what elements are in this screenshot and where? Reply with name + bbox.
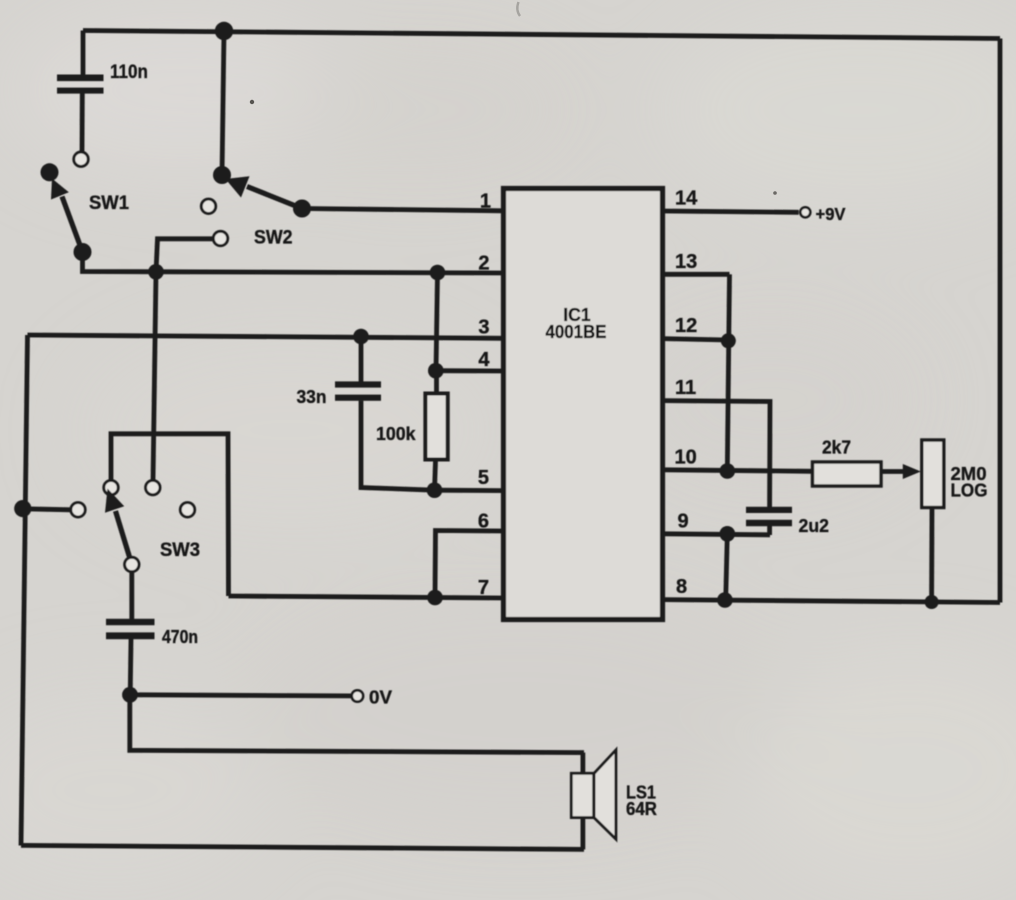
IC U1 4001BE body	[504, 189, 663, 620]
wire: 0V rail	[130, 695, 351, 696]
capacitor 2u2	[746, 507, 792, 526]
switch SW3	[71, 480, 195, 571]
svg-text:4: 4	[478, 349, 490, 371]
svg-text:3: 3	[478, 317, 489, 339]
junction: pin 9	[720, 526, 736, 542]
wire: IC pin 12 stub	[663, 339, 729, 340]
wire: IC pin 5 stub	[435, 488, 505, 493]
wire: top rail down to SW2 pole	[222, 31, 224, 175]
wire: left rail stub to SW3 throw circle	[23, 509, 72, 510]
wire: pin 3 rail	[28, 335, 505, 338]
wire: 2u2 bottom lead	[767, 526, 772, 535]
svg-text:6: 6	[478, 511, 489, 533]
svg-text:1: 1	[480, 191, 491, 213]
junction: pin 7	[427, 590, 443, 606]
junction: top rail / SW2	[215, 22, 233, 40]
junction: pin2 rail / 100k branch	[430, 265, 446, 281]
svg-text:2u2: 2u2	[799, 516, 830, 536]
wire: pin 9 junction down to pin 8	[726, 534, 728, 600]
svg-text:9: 9	[678, 510, 689, 532]
svg-text:8: 8	[676, 576, 687, 598]
junction: SW2 branch on pin2 rail	[148, 264, 164, 280]
wire: pin 13 down to pin 10 junction	[727, 274, 729, 471]
junction: pin 3 / 33n	[353, 329, 369, 345]
svg-text:+9V: +9V	[816, 204, 846, 224]
wire: SW2 lower throw to pin2 rail	[156, 239, 214, 272]
junction: left rail / SW3 stub	[14, 500, 31, 517]
wire: IC pin 10 to 2k7	[663, 470, 813, 472]
switch SW1	[41, 152, 92, 261]
junction: pin 10	[720, 463, 736, 479]
junction: 0V	[122, 687, 138, 703]
wire: SW3 pole to 470n top	[129, 571, 134, 620]
junction: pin 5	[427, 482, 443, 498]
svg-text:2: 2	[478, 253, 489, 275]
capacitor 470n	[106, 619, 155, 639]
wire: pin7 up and left to SW3 throw	[111, 434, 229, 596]
svg-text:SW1: SW1	[89, 193, 129, 214]
wire: IC pin 11 over to 2u2 top	[663, 401, 771, 508]
wire: loudspeaker bottom to bottom rail	[581, 817, 586, 849]
svg-text:SW3: SW3	[160, 540, 200, 561]
wiper arrowhead into pot	[903, 464, 921, 479]
wire: 33n lead top	[359, 337, 364, 384]
wire: right edge rail	[998, 39, 1003, 603]
wire: 2k7 to wiper arrow	[881, 469, 906, 474]
capacitor 33n	[335, 381, 381, 400]
wire: into loudspeaker top	[581, 753, 586, 774]
wire: top supply rail	[83, 31, 1000, 39]
wire: IC pin 6 down to pin 7	[435, 531, 504, 598]
svg-text:SW2: SW2	[254, 228, 293, 249]
svg-text:4001BE: 4001BE	[546, 322, 607, 342]
svg-text:7: 7	[478, 577, 489, 599]
tiny ink speck near +9V	[773, 191, 777, 195]
wire: pin2 junction down to pin4 junction	[436, 273, 438, 372]
wire: left edge rail	[21, 335, 28, 846]
svg-text:470n: 470n	[162, 626, 198, 647]
wire: bottom rail	[21, 845, 584, 849]
junction: pot bottom on pin 8 rail	[925, 595, 939, 609]
svg-text:100k: 100k	[376, 423, 416, 444]
svg-text:2k7: 2k7	[822, 438, 851, 458]
svg-text:64R: 64R	[626, 799, 657, 819]
svg-text:12: 12	[675, 315, 697, 337]
wire: pin4 junction to 100k top	[434, 371, 439, 395]
svg-text:110n: 110n	[110, 62, 148, 83]
svg-text:10: 10	[675, 446, 697, 468]
faint scratch artifact top centre	[517, 2, 520, 16]
terminal circle +9V	[800, 207, 810, 217]
wire: IC pin 9 to 2u2	[663, 534, 771, 535]
svg-text:5: 5	[478, 467, 489, 489]
resistor 100k	[425, 394, 447, 460]
junction: pin 12	[721, 333, 736, 348]
svg-text:LOG: LOG	[951, 480, 988, 501]
tiny ink speck	[250, 100, 254, 104]
svg-text:14: 14	[675, 188, 698, 210]
junction: pin 8	[717, 592, 733, 608]
switch SW2	[201, 166, 311, 246]
svg-text:11: 11	[675, 377, 696, 399]
wire: pin2 junction down to SW3 throw	[153, 272, 156, 481]
svg-text:13: 13	[675, 251, 697, 273]
wire: SW2 pole to IC pin 1	[302, 209, 504, 211]
wire: IC pin 13 stub	[663, 272, 730, 277]
wire: pin 8 rail to right edge	[663, 600, 1001, 603]
wire: IC pin 4 stub	[436, 368, 504, 373]
resistor 2k7	[813, 462, 882, 486]
potentiometer 2M0 LOG	[922, 440, 944, 508]
terminal circle 0V	[352, 690, 363, 701]
wire: pot bottom to pin 8 rail	[929, 507, 934, 602]
wire: 470n bottom to 0V junction	[128, 639, 134, 695]
wire: 100k bottom to pin5 junction	[435, 458, 436, 490]
junction: pin 4	[428, 363, 444, 379]
wire: IC pin 14 to +9V terminal	[663, 211, 799, 212]
wire: pin 7 rail	[229, 596, 505, 598]
wire: 0V junction down to loudspeaker	[130, 695, 584, 753]
wire: SW1 bottom pole to IC pin 2	[83, 250, 505, 273]
svg-text:33n: 33n	[297, 386, 327, 407]
wire: 33n lead bottom to pin5 junction	[361, 401, 435, 491]
svg-text:0V: 0V	[369, 688, 392, 708]
capacitor 110n	[57, 31, 104, 153]
loudspeaker LS1	[571, 750, 616, 839]
